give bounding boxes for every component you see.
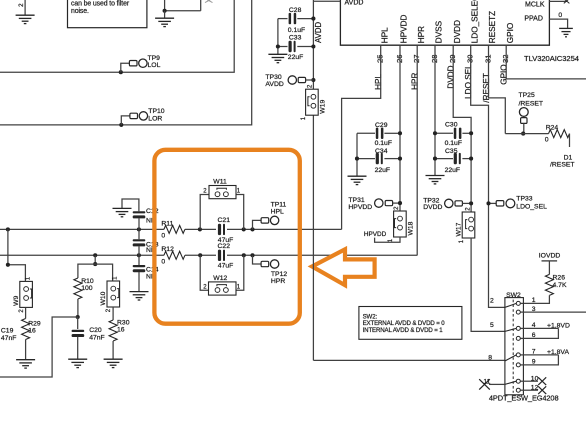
svg-text:R10: R10 xyxy=(81,278,94,285)
svg-text:4PDT_ESW_EG4208: 4PDT_ESW_EG4208 xyxy=(489,393,559,402)
svg-text:C22: C22 xyxy=(218,243,231,250)
svg-text:C20: C20 xyxy=(89,327,102,334)
no-connect X pin 12 xyxy=(538,386,546,394)
svg-text:2: 2 xyxy=(490,298,494,305)
svg-text:W11: W11 xyxy=(213,179,227,186)
svg-text:9: 9 xyxy=(532,359,536,366)
wire to page edge bottom-left xyxy=(0,317,78,377)
svg-text:D1: D1 xyxy=(564,154,573,161)
svg-text:can be used to filter: can be used to filter xyxy=(71,0,130,7)
capacitor C33 xyxy=(278,46,288,48)
capacitor C29 xyxy=(357,132,375,134)
no-connect X on MCLK xyxy=(564,0,570,3)
resistor R24 xyxy=(549,130,570,138)
jumper W18 xyxy=(394,211,407,237)
resistor R10 xyxy=(74,278,82,299)
svg-text:PPAD: PPAD xyxy=(524,15,543,22)
svg-text:C33: C33 xyxy=(289,34,302,41)
svg-text:HPVDD: HPVDD xyxy=(348,204,372,211)
wire LOL net to TP9 xyxy=(0,0,234,72)
svg-text:16: 16 xyxy=(28,328,36,335)
test point TP9 xyxy=(121,63,130,72)
jumper W11 xyxy=(200,195,209,230)
svg-text:TP9: TP9 xyxy=(148,55,161,62)
svg-text:/RESET: /RESET xyxy=(519,100,544,107)
wire RESETZ pin jog xyxy=(489,45,506,133)
jumper W9 xyxy=(20,281,33,307)
svg-text:8: 8 xyxy=(488,355,492,362)
svg-text:C19: C19 xyxy=(1,328,14,335)
wire DVDD to SW2 pin 5 xyxy=(471,238,505,331)
svg-text:DVDD: DVDD xyxy=(447,65,456,88)
wire W9 branch xyxy=(8,229,26,281)
svg-text:W12: W12 xyxy=(213,275,227,282)
svg-text:NI: NI xyxy=(146,218,153,225)
svg-text:11: 11 xyxy=(483,378,490,385)
wire C29-C34 left to ground xyxy=(356,133,358,176)
svg-text:C28: C28 xyxy=(289,7,302,14)
svg-text:GPIO: GPIO xyxy=(500,64,509,84)
svg-text:TP11: TP11 xyxy=(271,201,287,208)
capacitor C13 (NI) xyxy=(138,229,140,239)
svg-text:W19: W19 xyxy=(319,100,326,114)
svg-text:4.7K: 4.7K xyxy=(553,282,567,289)
capacitor C14 (NI) xyxy=(138,255,140,265)
svg-text:22uF: 22uF xyxy=(445,167,461,174)
ground below jack xyxy=(164,11,166,18)
svg-text:C34: C34 xyxy=(375,148,388,155)
ground below R30 xyxy=(104,358,123,360)
no-connect X pin 10 xyxy=(538,377,546,385)
svg-text:22uF: 22uF xyxy=(288,54,304,61)
svg-text:C21: C21 xyxy=(218,217,231,224)
svg-text:LDO_SEL: LDO_SEL xyxy=(516,204,547,211)
resistor R26 xyxy=(545,274,553,295)
svg-text:W18: W18 xyxy=(407,221,414,235)
wire /RESET xyxy=(505,133,548,135)
svg-text:2: 2 xyxy=(18,3,25,7)
svg-text:12: 12 xyxy=(531,385,539,392)
svg-text:0: 0 xyxy=(545,137,549,144)
svg-text:7: 7 xyxy=(532,349,536,356)
svg-text:DVSS: DVSS xyxy=(435,20,444,43)
svg-text:TP25: TP25 xyxy=(519,92,535,99)
wire GPIO pin to edge xyxy=(506,45,586,79)
svg-text:NI: NI xyxy=(146,247,153,254)
svg-text:C35: C35 xyxy=(445,148,458,155)
svg-text:W17: W17 xyxy=(455,222,462,236)
svg-text:HPVDD: HPVDD xyxy=(364,231,387,238)
svg-text:4: 4 xyxy=(532,322,536,329)
svg-text:MCLK: MCLK xyxy=(525,1,545,8)
svg-text:R12: R12 xyxy=(161,246,174,253)
jumper W12 xyxy=(200,255,208,290)
svg-text:HPR: HPR xyxy=(417,26,426,43)
ground below C33 xyxy=(268,53,287,55)
svg-text:NI: NI xyxy=(146,274,153,281)
svg-text:HPVDD: HPVDD xyxy=(400,14,409,43)
svg-text:6: 6 xyxy=(532,332,536,339)
svg-text:22uF: 22uF xyxy=(375,167,391,174)
svg-text:AVDD: AVDD xyxy=(345,0,364,7)
wire DVSS pin down to ground xyxy=(434,45,436,175)
capacitor C30 xyxy=(435,132,453,134)
test point TP11 xyxy=(253,220,262,229)
svg-text:10: 10 xyxy=(531,375,539,382)
svg-text:GPIO: GPIO xyxy=(506,23,515,43)
ground above C12 xyxy=(122,199,139,211)
test point TP33 (mirrored) xyxy=(489,202,497,204)
wire AVDD to SW2 pin 8 xyxy=(313,359,505,361)
ground below C14 xyxy=(130,291,149,293)
note text box SW2 settings xyxy=(359,307,462,340)
svg-text:DVDD: DVDD xyxy=(453,20,462,43)
svg-text:+1.8VA: +1.8VA xyxy=(547,349,569,356)
svg-text:R24: R24 xyxy=(546,125,559,132)
svg-text:HPL: HPL xyxy=(271,209,284,216)
svg-text:47nF: 47nF xyxy=(89,335,105,342)
resistor R12 xyxy=(164,251,185,259)
svg-text:0: 0 xyxy=(558,12,562,19)
svg-text:TP33: TP33 xyxy=(516,196,532,203)
svg-text:16: 16 xyxy=(117,326,125,333)
svg-text:TLV320AIC3254: TLV320AIC3254 xyxy=(524,54,579,63)
wire stub above ground near jack xyxy=(164,0,166,11)
svg-text:47nF: 47nF xyxy=(1,335,17,342)
svg-text:0.1uF: 0.1uF xyxy=(445,140,462,147)
capacitor C22 xyxy=(218,250,221,261)
wire C28-C33 left xyxy=(277,19,279,55)
resistor R29 xyxy=(25,307,27,318)
capacitor C34 xyxy=(357,158,375,160)
wire HPL net (wire1) xyxy=(0,228,164,230)
faint no-connect mark top xyxy=(205,0,213,3)
SW2 right pin wires xyxy=(523,311,586,313)
wire LOR net to TP10 xyxy=(0,0,252,125)
svg-text:5: 5 xyxy=(490,322,494,329)
jumper W19 xyxy=(306,89,319,115)
svg-text:/RESET: /RESET xyxy=(550,162,575,169)
svg-text:TP10: TP10 xyxy=(148,108,164,115)
svg-text:W9: W9 xyxy=(13,295,20,305)
svg-text:IOVDD: IOVDD xyxy=(539,252,561,259)
svg-text:+1.8VD: +1.8VD xyxy=(547,323,570,330)
svg-text:3: 3 xyxy=(532,306,536,313)
svg-text:R29: R29 xyxy=(28,321,41,328)
highlight arrow xyxy=(312,249,375,285)
ground below C20 xyxy=(68,358,87,360)
capacitor C12 (NI) xyxy=(133,211,146,213)
ground PPAD xyxy=(559,27,573,29)
svg-text:INTERNAL AVDD & DVDD = 1: INTERNAL AVDD & DVDD = 1 xyxy=(363,327,444,334)
svg-text:0: 0 xyxy=(161,258,165,265)
svg-text:HPL: HPL xyxy=(380,27,389,43)
ground below C34 xyxy=(348,175,367,177)
svg-text:100: 100 xyxy=(81,285,93,292)
test point TP10 xyxy=(121,116,130,125)
note text box xyxy=(68,0,147,28)
highlight rounded rectangle xyxy=(154,150,299,324)
svg-text:TP30: TP30 xyxy=(265,74,281,81)
svg-text:HPL: HPL xyxy=(374,74,383,90)
svg-text:AVDD: AVDD xyxy=(265,81,283,88)
wire HPR net (wire2) xyxy=(0,254,164,256)
wire HPL pin to wire1 xyxy=(342,45,381,229)
svg-text:R30: R30 xyxy=(117,319,130,326)
svg-text:HPR: HPR xyxy=(271,278,285,285)
ground top-left xyxy=(24,0,26,15)
svg-text:LDO_SELECT: LDO_SELECT xyxy=(470,0,479,43)
wire LDO_SELECT pin jog xyxy=(471,45,505,307)
IC U1 TLV320AIC3254 box xyxy=(340,0,549,45)
svg-text:R26: R26 xyxy=(553,274,566,281)
svg-text:DVDD: DVDD xyxy=(423,204,442,211)
test point TP12 xyxy=(253,255,262,264)
wire DVDD pin jog xyxy=(453,45,471,212)
wire AVDD pin xyxy=(313,0,340,2)
capacitor C35 xyxy=(435,158,453,160)
wire HPR pin to wire2 xyxy=(416,45,418,255)
svg-text:RESETZ: RESETZ xyxy=(488,11,497,43)
resistor R30 xyxy=(112,307,114,320)
svg-text:1: 1 xyxy=(532,297,536,304)
svg-text:noise.: noise. xyxy=(71,8,89,15)
SW2 levers xyxy=(505,303,516,307)
svg-text:W10: W10 xyxy=(100,291,107,305)
jumper W10 xyxy=(107,281,120,307)
capacitor C20 xyxy=(77,317,79,329)
capacitor C21 xyxy=(218,224,221,235)
resistor R11 xyxy=(164,225,185,233)
svg-text:47uF: 47uF xyxy=(218,262,234,269)
svg-text:LOR: LOR xyxy=(148,115,162,122)
jumper W17 xyxy=(462,212,475,238)
AVDD vertical line xyxy=(312,0,314,89)
svg-text:C29: C29 xyxy=(375,122,388,129)
SW2 left pin 11 with no-connect X xyxy=(489,383,505,385)
svg-text:0: 0 xyxy=(161,233,165,240)
svg-text:R11: R11 xyxy=(161,220,173,227)
svg-text:AVDD: AVDD xyxy=(314,22,323,43)
wire R10-W10 branch xyxy=(94,255,96,264)
ground DVSS xyxy=(426,175,445,177)
wire HPVDD pin down xyxy=(399,45,401,211)
svg-text:0.1uF: 0.1uF xyxy=(375,140,392,147)
svg-text:LDO SEL: LDO SEL xyxy=(464,64,473,99)
svg-text:0.1uF: 0.1uF xyxy=(288,27,305,34)
ground below R29 xyxy=(16,359,35,361)
svg-text:C30: C30 xyxy=(445,122,458,129)
svg-text:LOL: LOL xyxy=(148,62,161,69)
svg-text:HPR: HPR xyxy=(411,73,420,90)
capacitor C28 xyxy=(278,18,288,20)
